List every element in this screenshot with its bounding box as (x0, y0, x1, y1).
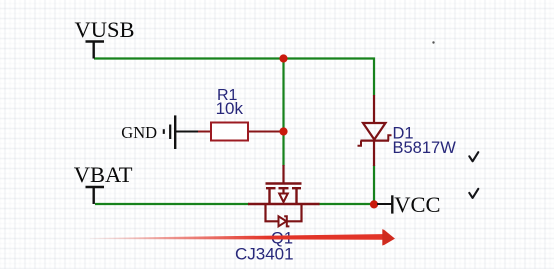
resistor R1 (198, 123, 281, 141)
svg-text:CJ3401: CJ3401 (235, 244, 294, 263)
svg-text:VBAT: VBAT (74, 162, 133, 187)
svg-text:B5817W: B5817W (393, 139, 457, 157)
power port VUSB (75, 17, 135, 59)
wire GND to R1 (175, 131, 199, 133)
diode D1 (358, 95, 392, 166)
svg-text:VUSB: VUSB (75, 17, 135, 42)
wire top rail VUSB to D1 (94, 59, 374, 96)
power port VCC (392, 192, 440, 217)
wire VCC node to port (377, 203, 392, 205)
wire gate feed vertical (282, 59, 284, 167)
wire VBAT rail (95, 203, 249, 205)
annotation checkmark 2 (469, 189, 478, 198)
junction node top rail (279, 54, 287, 62)
stray mark (432, 41, 434, 43)
annotation checkmark 1 (469, 152, 478, 161)
svg-text:10k: 10k (216, 99, 244, 118)
annotation red arrow (90, 229, 395, 246)
power port VBAT (74, 162, 133, 204)
ground GND (121, 115, 175, 149)
svg-text:VCC: VCC (394, 192, 440, 217)
wire D1 cathode to VCC node (373, 165, 375, 204)
junction node VCC (370, 200, 378, 208)
junction node gate/R1 (279, 127, 287, 135)
transistor Q1 P-MOSFET (248, 165, 320, 226)
wire Q1 drain to VCC node (319, 203, 375, 205)
svg-text:GND: GND (121, 123, 157, 142)
